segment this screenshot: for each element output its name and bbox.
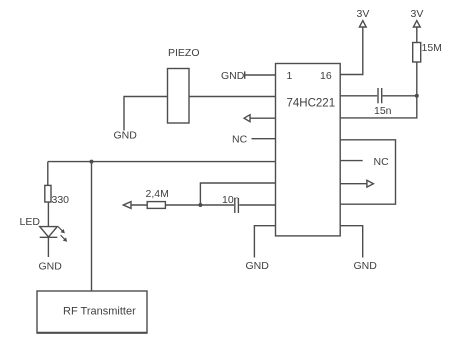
svg-text:74HC221: 74HC221 <box>287 97 336 109</box>
svg-text:3V: 3V <box>357 8 370 20</box>
wire junction down to IC pin row <box>340 96 417 118</box>
capacitor C 10n <box>235 198 239 213</box>
svg-text:NC: NC <box>374 156 390 168</box>
svg-text:2,4M: 2,4M <box>146 188 169 200</box>
LED emission arrows <box>58 227 67 242</box>
wire feedback loop right <box>340 140 395 204</box>
node GND pin1 tick <box>244 71 246 78</box>
svg-text:GND: GND <box>354 260 378 272</box>
wire NC right <box>340 160 363 162</box>
svg-text:16: 16 <box>320 70 332 82</box>
svg-text:LED: LED <box>20 216 41 228</box>
wire resistor 330 to LED <box>47 202 49 227</box>
svg-text:3V: 3V <box>411 8 424 20</box>
wire down to resistor 330 <box>47 162 49 186</box>
svg-text:15M: 15M <box>422 42 442 54</box>
svg-text:330: 330 <box>52 194 70 206</box>
junction dot RF branch <box>90 160 94 164</box>
arrow head left output <box>244 115 250 122</box>
wire junction to RF transmitter <box>91 162 93 291</box>
svg-text:NC: NC <box>232 134 248 146</box>
wire arrow to resistor 2,4M <box>131 204 147 206</box>
LED D1 <box>40 227 58 238</box>
wire piezo to IC <box>189 96 276 98</box>
resistor 2,4M <box>147 202 165 209</box>
wire junction to capacitor 10n <box>200 204 234 206</box>
wire LED to ground <box>47 237 49 257</box>
junction dot RC node <box>198 203 202 207</box>
supply 3V left symbol <box>359 21 366 27</box>
svg-text:RF Transmitter: RF Transmitter <box>63 305 136 317</box>
wire junction up to IC pin <box>200 183 275 205</box>
svg-text:PIEZO: PIEZO <box>168 47 200 59</box>
IC U1 74HC221 body <box>276 64 341 236</box>
resistor 330 <box>45 185 51 202</box>
wire long net to LED branch <box>48 161 276 163</box>
svg-text:GND: GND <box>114 130 138 142</box>
wire pin16 to 3V left <box>340 27 363 75</box>
svg-text:15n: 15n <box>374 105 392 117</box>
wire 3V right to resistor 15M <box>416 27 418 43</box>
wire 15M to junction <box>416 62 418 96</box>
RF transmitter module <box>37 291 147 333</box>
junction dot at 15M/15n <box>415 94 419 98</box>
svg-text:1: 1 <box>287 70 293 82</box>
wire output arrow right <box>340 183 367 185</box>
wire ground right bottom <box>340 226 363 258</box>
capacitor C 15n <box>378 88 382 103</box>
piezo element <box>168 69 190 124</box>
wire capacitor 10n to IC <box>239 204 275 206</box>
wire resistor 2,4M to junction <box>165 204 200 206</box>
wire output arrow left <box>250 117 276 119</box>
supply 3V right symbol <box>413 21 420 27</box>
wire NC left <box>252 138 276 140</box>
svg-text:GND: GND <box>246 260 270 272</box>
svg-text:GND: GND <box>221 70 245 82</box>
svg-text:GND: GND <box>39 260 63 272</box>
wire piezo to ground <box>124 97 168 131</box>
RF transmitter bottom edge <box>37 332 147 334</box>
arrow head trigger input left <box>123 202 131 209</box>
wire IC pin to capacitor 15n <box>340 95 377 97</box>
svg-text:10n: 10n <box>222 194 240 206</box>
resistor 15M <box>413 43 421 63</box>
wire capacitor 15n to junction <box>383 95 417 97</box>
wire ground left bottom <box>254 226 275 258</box>
arrow head right output <box>367 180 374 187</box>
wire GND label to pin 1 <box>245 74 276 76</box>
